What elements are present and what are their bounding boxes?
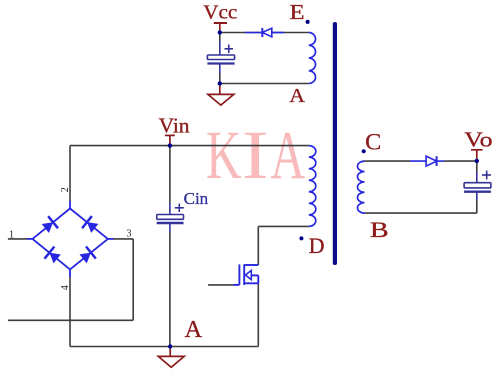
svg-text:I: I	[242, 117, 269, 193]
svg-text:A: A	[271, 116, 306, 192]
svg-text:A: A	[185, 316, 203, 343]
svg-text:Vo: Vo	[464, 129, 492, 152]
svg-text:C: C	[365, 130, 381, 155]
svg-text:4: 4	[60, 285, 71, 290]
svg-text:2: 2	[60, 187, 71, 192]
svg-text:D: D	[309, 233, 325, 258]
svg-text:K: K	[206, 117, 241, 193]
svg-text:A: A	[289, 84, 305, 107]
svg-text:B: B	[370, 217, 389, 243]
svg-text:Vin: Vin	[159, 113, 190, 137]
svg-text:1: 1	[9, 230, 14, 241]
svg-text:Cin: Cin	[184, 189, 209, 208]
svg-text:Vcc: Vcc	[203, 2, 237, 23]
svg-text:E: E	[290, 1, 305, 24]
svg-text:3: 3	[127, 228, 132, 239]
